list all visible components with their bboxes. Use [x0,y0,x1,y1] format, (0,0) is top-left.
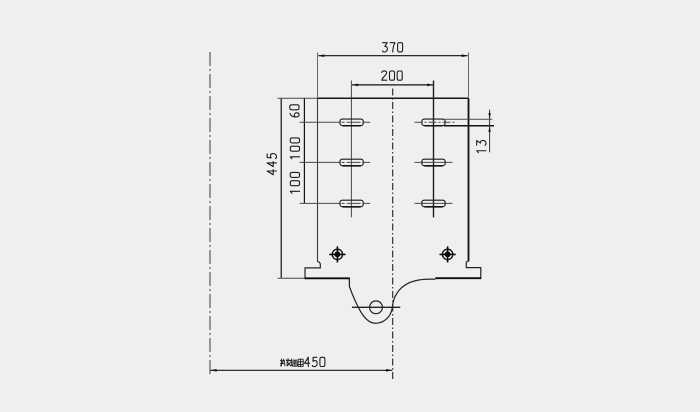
plate left edge [317,98,319,262]
plate top edge [318,97,469,99]
arrow 450 right [386,369,393,372]
plate right edge [468,98,470,261]
label 370 [382,43,402,52]
extension line top (445 / plate top) [278,97,318,99]
label 100 lower (rotated) [290,172,299,193]
label 100 upper (rotated) [290,138,299,159]
label 200 [382,71,402,80]
arrow 370 left [318,54,325,57]
13 dim: slot top edge extension [445,118,492,120]
arrow 450 left [210,369,217,372]
slot row3 left [340,200,363,207]
arrow 13 upper (pointing down) [488,113,490,119]
bottom lug outline (left drop, U bulge, S-curve right) [349,279,435,323]
arrow 200 left [352,84,359,87]
label 445 (rotated) [267,154,276,175]
label 60 (rotated) [290,105,299,117]
dimension line 370 [319,55,468,57]
slot bottom edge emphasis [343,126,443,207]
datum centre line left (vertical dash-dot) [209,52,211,375]
row 2 slot centre line right [415,161,453,163]
bottom-right notch profile [466,261,481,278]
row 3 slot centre line left [300,202,371,204]
label 450 [305,357,325,366]
bottom-right flange thick bottom edge [435,277,481,279]
slot row3 right [422,200,445,207]
row 2 slot centre line left [300,161,371,163]
slot column line right (200 extension) [433,81,435,218]
label 13 (rotated) [477,140,486,152]
extension line right edge (for 370) [468,53,470,98]
row 1 slot centre line left [300,121,371,123]
bottom-left flange thick bottom edge [304,277,350,279]
arrow 370 right [462,54,469,57]
slot row1 right [422,119,445,126]
extension line bottom (445) [278,277,305,279]
dimension line 450 (bottom) [211,369,393,371]
slot row2 right [422,159,445,166]
weld locating mark right (target symbol) [440,246,456,262]
row 3 slot centre line right [415,202,453,204]
lug hole [370,301,383,314]
lug hole horizontal centre line [352,306,400,308]
main vertical axis centre line [392,89,394,382]
slot row2 left [340,159,363,166]
slot column line left (200 extension) [350,81,352,218]
13 dim: slot bottom edge extension [444,125,494,127]
weld locating mark left (target symbol) [329,246,345,262]
label prefix CJK characters (drawn strokes) [280,359,303,367]
13 dimension line (vertical) [489,110,491,153]
slot row1 left [340,119,363,126]
bottom-left notch profile [305,262,320,278]
dimension line 200 [352,84,433,86]
arrow 13 lower (pointing up) [488,126,490,132]
arrow 200 right [427,84,434,87]
row 1 slot centre line right [415,121,457,123]
dimension line 60/100/100 (vertical) [303,98,305,203]
extension line left edge (for 370) [317,53,319,98]
dimension line 445 (vertical) [280,99,282,278]
